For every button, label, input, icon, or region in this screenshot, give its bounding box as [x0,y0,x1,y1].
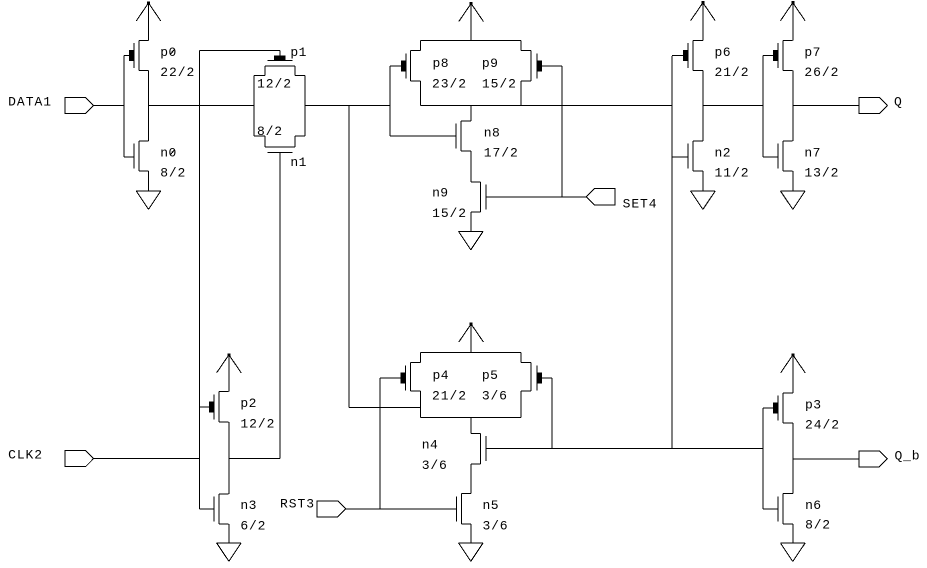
VDD supply arrow (above p8/p9) [459,4,484,41]
wire CLK2 input [93,458,199,460]
svg-text:3/6: 3/6 [482,388,507,403]
svg-text:p3: p3 [805,398,821,413]
svg-text:n4: n4 [422,438,438,453]
svg-text:12/2: 12/2 [240,416,274,431]
svg-text:p9: p9 [482,56,498,71]
svg-text:Q: Q [894,95,902,110]
svg-text:n3: n3 [240,498,256,513]
transistor n9 (NMOS) [471,182,486,212]
ground symbol (n7 source) [781,171,806,209]
transistor p7 (PMOS) [763,41,793,71]
transistor n6 (NMOS) [763,494,793,524]
svg-text:n5: n5 [483,498,499,513]
port RST3 (input) [317,501,346,517]
transistor n4 (NMOS) [471,434,486,464]
slashed zero mark (n0 label) [170,150,175,155]
wire CLKB node (p2/n3 drains to n1 gate) [229,422,280,494]
slashed zero mark (p0 label) [170,49,175,54]
svg-text:15/2: 15/2 [432,206,466,221]
wire DATA1 input to p0/n0 gates [93,105,124,107]
wire p7/n7 gate line [762,56,764,157]
port SET4 (input) [586,189,615,205]
VDD supply arrow (above p3) [781,355,806,393]
svg-text:n7: n7 [804,145,820,160]
svg-text:CLK2: CLK2 [8,448,42,463]
wire p3/n6 gate line [762,408,764,509]
port Q_b (output) [859,451,888,467]
svg-text:17/2: 17/2 [484,146,518,161]
svg-text:21/2: 21/2 [715,65,749,80]
svg-text:p1: p1 [290,45,306,60]
VDD supply arrow (above p0) [136,3,161,41]
svg-text:Q_b: Q_b [895,448,920,463]
transistor p4 (PMOS) [380,353,471,418]
svg-text:n8: n8 [484,125,500,140]
wire pass-gate right terminal [304,76,306,137]
transistor n7 (NMOS) [763,141,793,171]
svg-text:p6: p6 [715,45,731,60]
wire node M (pass gate output) [305,105,390,107]
transistor p3 (PMOS) [763,393,793,423]
svg-text:p2: p2 [240,396,256,411]
svg-text:3/6: 3/6 [483,519,508,534]
svg-text:26/2: 26/2 [804,65,838,80]
VDD supply arrow (above p2) [217,355,242,392]
ground symbol (n2 source) [691,171,716,209]
svg-text:DATA1: DATA1 [8,95,51,110]
wire Q_b output node [793,423,859,494]
wire RST3 to p4/n5 gates [345,508,457,510]
port CLK2 (input) [65,451,94,467]
wire p9 gate line to SET4 [561,66,563,197]
wire pass-gate left terminal [253,76,255,137]
svg-text:n9: n9 [432,186,448,201]
svg-text:n0: n0 [160,145,176,160]
port DATA1 (input) [65,98,94,114]
VDD supply arrow (above p4/p5) [459,324,484,353]
transistor p9 (PMOS) [471,41,562,106]
wire Q output node [793,71,859,141]
VDD supply arrow (above p7) [781,3,806,41]
wire n8 source to n9 drain [470,151,472,182]
svg-text:3/6: 3/6 [422,458,447,473]
svg-text:11/2: 11/2 [715,166,749,181]
svg-text:23/2: 23/2 [432,76,466,91]
ground symbol (n3 source) [217,524,242,561]
transistor p1 (PMOS, pass gate) [254,60,305,75]
wire p5/n4 gate tie [551,378,553,449]
svg-text:21/2: 21/2 [432,388,466,403]
transistor n1 (NMOS, pass gate) [254,136,305,152]
transistor n5 (NMOS) [457,494,472,524]
wire CLK gate line (p1,p2,n3) [198,51,200,509]
svg-text:p0: p0 [160,45,176,60]
svg-text:p4: p4 [433,368,449,383]
svg-text:6/2: 6/2 [240,518,265,533]
svg-text:p8: p8 [433,56,449,71]
wire p0/n0 inverter output node [149,71,255,141]
ground symbol (n9 source) [459,212,484,250]
transistor p5 (PMOS) [471,353,552,418]
transistor p2 (PMOS) [199,392,228,422]
transistor p8 (PMOS) [390,41,471,106]
wire node S (NAND1 output) [521,105,672,107]
svg-text:p5: p5 [482,368,498,383]
wire SET4 to n9/p9 gates [486,196,587,198]
transistor p6 (PMOS) [672,41,703,71]
wire p1 gate from CLK line [199,51,279,56]
wire p8/n8 gate line B [390,66,456,136]
svg-text:15/2: 15/2 [482,76,516,91]
wire n4 source to n5 drain [470,464,472,494]
svg-text:13/2: 13/2 [804,166,838,181]
ground symbol (n0 source) [136,171,161,209]
wire node S to p6/n2 gates and slave feedback [671,56,673,449]
svg-text:RST3: RST3 [280,497,314,512]
svg-text:n2: n2 [715,145,731,160]
wire p0/n0 gate line [123,56,125,157]
wire node S to n8 drain [470,105,472,121]
wire p4 gate line to RST3 [379,378,381,509]
svg-text:n6: n6 [805,498,821,513]
wire node M feedback to NAND2 output [349,106,421,408]
svg-text:8/2: 8/2 [805,518,830,533]
transistor n2 (NMOS) [672,141,703,171]
svg-text:SET4: SET4 [623,197,657,212]
wire n1 gate from CLKB [279,152,281,458]
svg-text:22/2: 22/2 [160,65,194,80]
transistor n8 (NMOS) [456,121,471,151]
port Q (output) [859,98,888,114]
ground symbol (n6 source) [781,524,806,562]
svg-text:24/2: 24/2 [805,418,839,433]
wire NAND2 output to n4 drain [470,418,472,434]
transistor n0 (NMOS) [124,141,149,171]
svg-text:8/2: 8/2 [257,124,282,139]
svg-text:12/2: 12/2 [257,76,291,91]
svg-text:8/2: 8/2 [160,166,185,181]
svg-text:n1: n1 [290,155,306,170]
VDD supply arrow (above p6) [691,3,716,41]
transistor p0 (PMOS) [124,41,149,71]
ground symbol (n5 source) [459,524,484,561]
svg-text:p7: p7 [804,45,820,60]
transistor n3 (NMOS) [199,494,228,524]
wire p6/n2 output to p7/n7 gates [703,71,763,141]
wire slave node to p5,n4,p3,n6 gates [486,448,763,450]
